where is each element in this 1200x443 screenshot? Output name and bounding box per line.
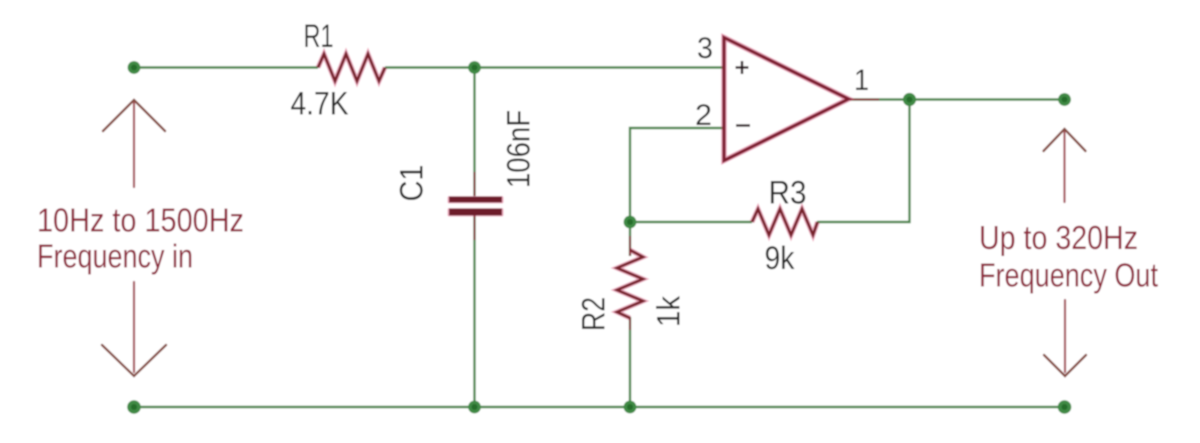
svg-text:C1: C1 <box>394 165 430 202</box>
svg-text:3: 3 <box>697 32 713 65</box>
svg-text:2: 2 <box>695 99 712 132</box>
op-amp minus sign <box>736 124 750 126</box>
svg-text:1k: 1k <box>651 295 687 327</box>
wire red lead stub above C1 <box>474 172 476 196</box>
wire red lead stub below R2 <box>629 317 631 330</box>
svg-text:R3: R3 <box>769 175 807 211</box>
arrow up right <box>1044 129 1086 202</box>
svg-text:106nF: 106nF <box>501 110 537 188</box>
arrow down left <box>102 282 166 376</box>
wire top rail R1 to op-amp pin3 <box>385 66 724 68</box>
node C1 top junction <box>468 61 481 74</box>
svg-text:10Hz to 1500Hz: 10Hz to 1500Hz <box>37 203 244 240</box>
wire top rail left of R1 <box>134 66 318 68</box>
wire red lead stub below C1 <box>474 215 476 240</box>
node input left <box>128 61 141 74</box>
node bottom right <box>1058 400 1072 414</box>
wire junction down to R2 <box>629 222 631 256</box>
wire R3 left to junction <box>630 221 752 223</box>
node bottom left <box>127 400 141 414</box>
wire junction up to pin2 <box>630 128 724 222</box>
svg-text:Frequency in: Frequency in <box>37 239 193 276</box>
svg-text:R1: R1 <box>304 18 334 54</box>
wire C1 vertical lower <box>473 215 475 407</box>
svg-text:1: 1 <box>854 64 869 97</box>
arrow down right <box>1044 300 1086 376</box>
resistor R1 <box>318 54 385 81</box>
node bottom R2 <box>624 401 637 414</box>
capacitor C1 plates <box>448 196 504 217</box>
wire R2 bottom to rail <box>629 317 631 407</box>
svg-text:R2: R2 <box>576 297 612 331</box>
resistor R3 <box>752 209 818 235</box>
node output right end <box>1058 93 1071 106</box>
svg-text:Frequency Out: Frequency Out <box>979 258 1159 295</box>
arrow up left <box>103 100 165 187</box>
svg-text:9k: 9k <box>765 240 796 276</box>
wire C1 vertical upper <box>473 68 475 197</box>
wire op-amp output <box>850 98 1065 100</box>
node output junction <box>903 93 916 106</box>
op-amp U1 triangle <box>724 38 849 161</box>
op-amp plus sign <box>736 61 749 74</box>
wire red lead stub at op-amp output <box>850 99 879 101</box>
node feedback junction <box>624 216 637 229</box>
svg-text:4.7K: 4.7K <box>291 86 349 122</box>
wire red lead stub above R2 <box>629 236 631 256</box>
svg-text:Up to 320Hz: Up to 320Hz <box>979 220 1138 257</box>
resistor R2 <box>617 250 643 318</box>
wire bottom rail <box>134 406 1065 408</box>
wire output down to feedback row <box>817 100 910 223</box>
node bottom C1 <box>468 401 481 414</box>
